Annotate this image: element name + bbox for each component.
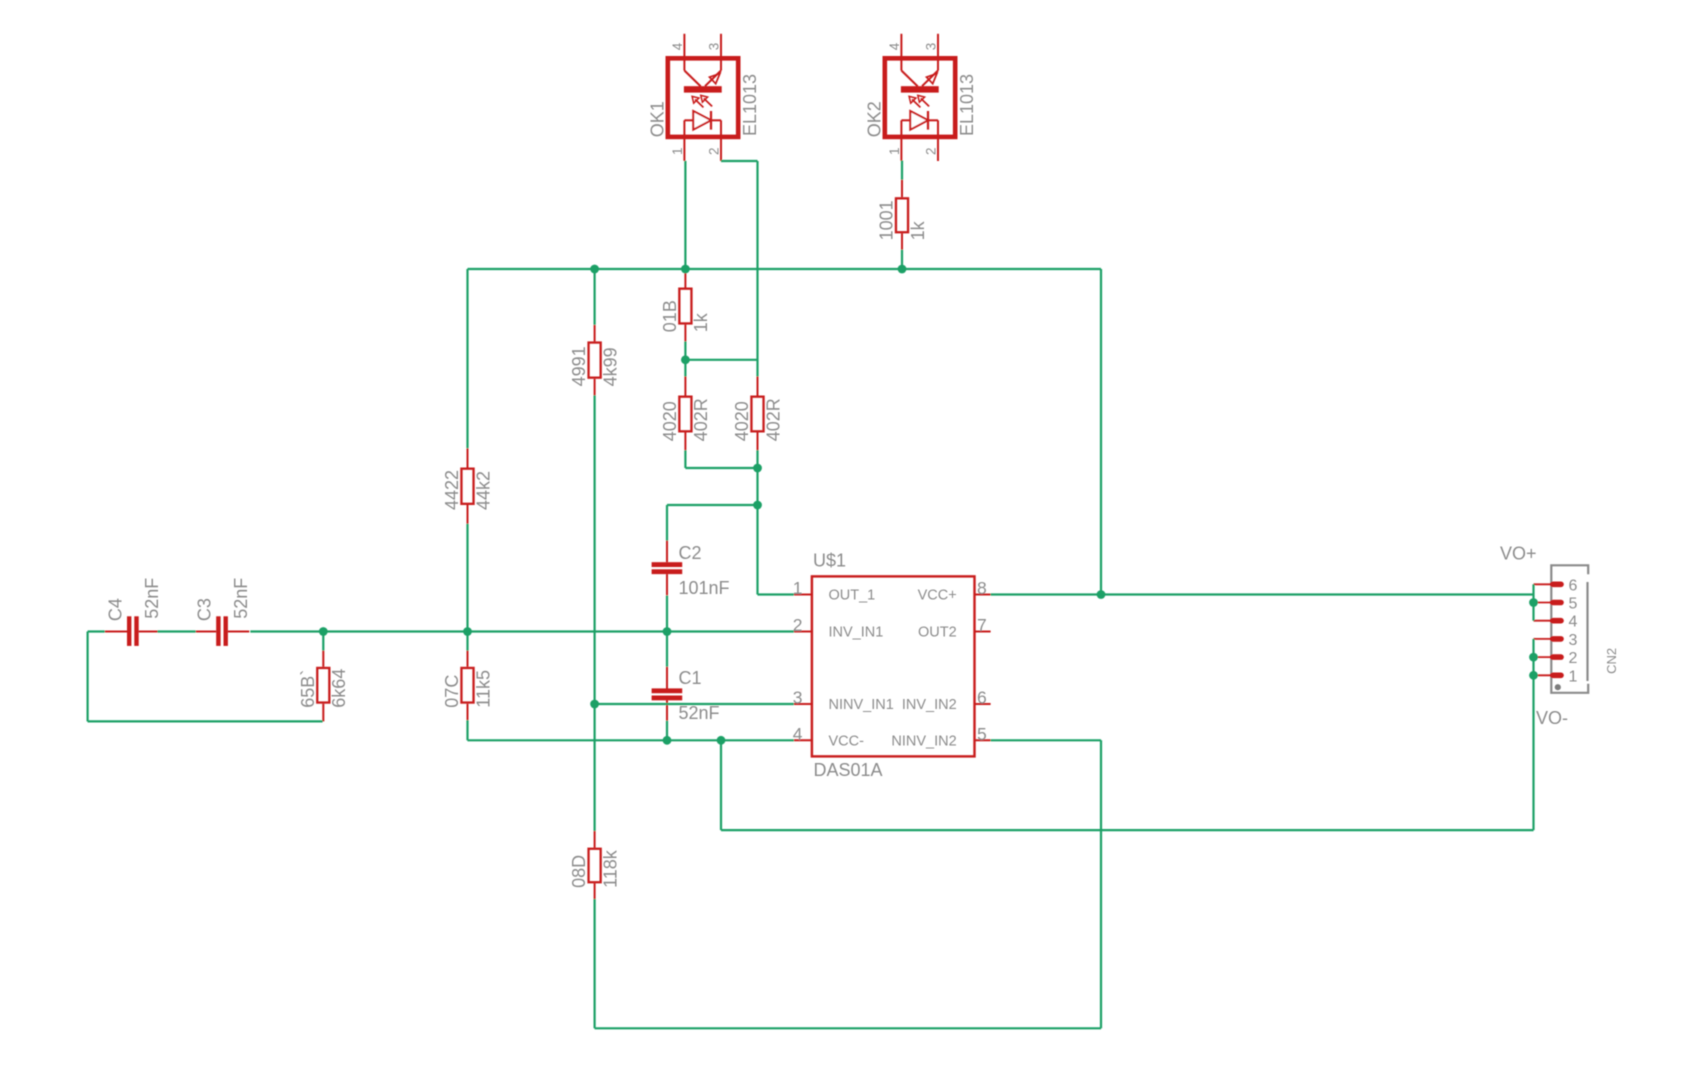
svg-text:INV_IN2: INV_IN2 — [902, 697, 957, 713]
svg-text:INV_IN1: INV_IN1 — [829, 625, 884, 641]
svg-text:NINV_IN1: NINV_IN1 — [829, 697, 894, 713]
svg-text:01B: 01B — [660, 300, 680, 332]
svg-text:6k64: 6k64 — [329, 669, 349, 708]
svg-text:DAS01A: DAS01A — [814, 760, 883, 780]
svg-text:402R: 402R — [763, 398, 783, 441]
svg-text:1: 1 — [1569, 668, 1578, 685]
svg-text:52nF: 52nF — [679, 703, 720, 723]
svg-text:52nF: 52nF — [231, 578, 251, 619]
svg-text:4: 4 — [887, 42, 902, 50]
svg-text:118k: 118k — [600, 849, 620, 888]
svg-text:6: 6 — [977, 688, 987, 708]
svg-text:VO+: VO+ — [1500, 544, 1537, 564]
svg-text:VCC-: VCC- — [829, 733, 865, 749]
svg-text:1: 1 — [887, 147, 902, 155]
svg-text:65B`: 65B` — [298, 670, 318, 708]
svg-text:CN2: CN2 — [1604, 648, 1619, 674]
svg-text:3: 3 — [707, 43, 722, 51]
svg-text:C2: C2 — [679, 543, 702, 563]
svg-text:4k99: 4k99 — [600, 347, 620, 386]
svg-text:2: 2 — [793, 615, 803, 635]
svg-text:VO-: VO- — [1536, 708, 1568, 728]
svg-text:OUT_1: OUT_1 — [829, 588, 876, 604]
svg-text:6: 6 — [1569, 577, 1578, 594]
svg-text:8: 8 — [977, 578, 987, 598]
svg-text:2: 2 — [1569, 650, 1578, 667]
svg-text:U$1: U$1 — [813, 551, 846, 571]
svg-text:11k5: 11k5 — [473, 670, 493, 708]
svg-text:4422: 4422 — [442, 470, 462, 510]
svg-text:C1: C1 — [679, 668, 702, 688]
svg-text:4991: 4991 — [569, 346, 589, 386]
svg-text:4: 4 — [670, 42, 685, 50]
svg-text:44k2: 44k2 — [473, 471, 493, 510]
svg-text:4020: 4020 — [660, 401, 680, 441]
svg-text:VCC+: VCC+ — [918, 588, 957, 604]
svg-text:4: 4 — [1569, 614, 1578, 631]
svg-text:2: 2 — [707, 147, 722, 155]
svg-text:EL1013: EL1013 — [957, 74, 977, 136]
svg-text:3: 3 — [924, 43, 939, 51]
svg-text:OK2: OK2 — [865, 101, 885, 137]
svg-text:1k: 1k — [691, 312, 711, 332]
svg-text:52nF: 52nF — [142, 578, 162, 619]
svg-text:3: 3 — [1569, 632, 1578, 649]
svg-text:1: 1 — [793, 578, 803, 598]
svg-text:4020: 4020 — [732, 401, 752, 441]
svg-text:5: 5 — [977, 724, 987, 744]
svg-text:3: 3 — [793, 688, 803, 708]
svg-text:C4: C4 — [105, 598, 125, 621]
svg-text:101nF: 101nF — [679, 578, 730, 598]
svg-text:402R: 402R — [691, 398, 711, 441]
svg-text:1001: 1001 — [877, 200, 897, 240]
svg-text:5: 5 — [1569, 596, 1578, 613]
svg-text:OK1: OK1 — [648, 101, 668, 137]
svg-text:NINV_IN2: NINV_IN2 — [891, 733, 956, 749]
svg-text:07C: 07C — [442, 675, 462, 708]
svg-text:EL1013: EL1013 — [740, 74, 760, 136]
svg-text:OUT2: OUT2 — [918, 625, 957, 641]
svg-text:7: 7 — [977, 615, 987, 635]
svg-text:1k: 1k — [908, 220, 928, 240]
svg-text:4: 4 — [793, 724, 803, 744]
svg-text:1: 1 — [670, 147, 685, 155]
svg-text:08D: 08D — [569, 855, 589, 888]
svg-text:2: 2 — [924, 147, 939, 155]
svg-text:C3: C3 — [195, 598, 215, 621]
